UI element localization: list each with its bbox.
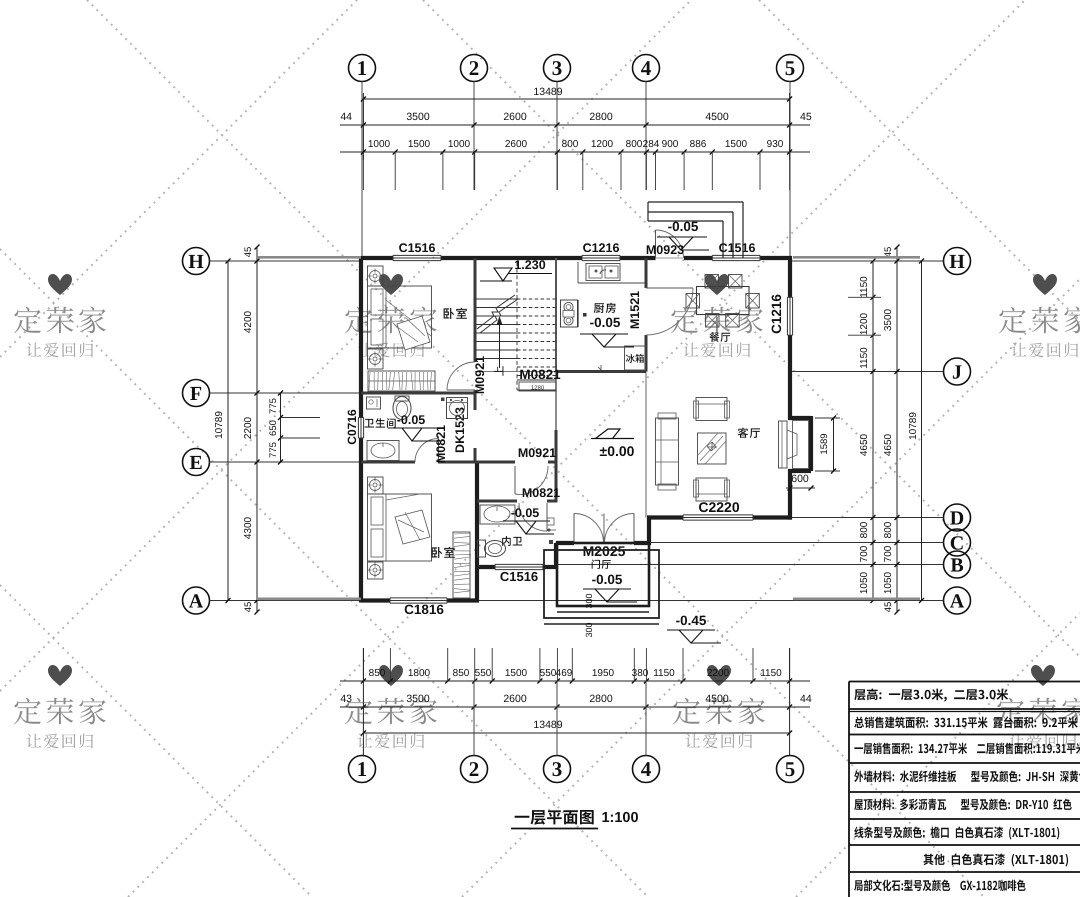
svg-text:3: 3 xyxy=(552,56,563,80)
living rug xyxy=(698,433,727,464)
svg-text:C1816: C1816 xyxy=(404,602,444,617)
left dim line 10789 xyxy=(227,261,229,601)
svg-text:M0821: M0821 xyxy=(434,425,448,463)
bathroom sink xyxy=(367,441,399,461)
svg-text:3500: 3500 xyxy=(406,111,430,123)
svg-text:2600: 2600 xyxy=(503,111,527,123)
svg-text:M0821: M0821 xyxy=(522,486,560,500)
bottom dimension line row2 xyxy=(340,706,810,708)
washing machine xyxy=(447,398,468,419)
svg-text:C1516: C1516 xyxy=(500,569,538,584)
interior wall stair-kitchen xyxy=(555,258,557,372)
window C1216 kitchen top xyxy=(582,254,620,256)
svg-text:300: 300 xyxy=(584,622,594,637)
grid bubbles right H J D C B A xyxy=(944,248,971,275)
living armchair top xyxy=(696,398,727,421)
exterior wall foyer east xyxy=(647,518,651,546)
svg-text:-0.05: -0.05 xyxy=(592,572,623,587)
entry porch steps xyxy=(557,543,649,606)
door M2025 foyer double xyxy=(573,514,575,544)
right dim line mid xyxy=(896,247,898,612)
window C1516 bedroom1 top xyxy=(393,254,441,256)
window C1816 bedroom2 bottom xyxy=(390,597,447,599)
svg-text:J: J xyxy=(952,362,962,384)
stair up arrow xyxy=(499,322,501,368)
svg-text:1500: 1500 xyxy=(505,668,528,679)
bedroom2 label xyxy=(432,547,455,558)
svg-text:2200: 2200 xyxy=(707,668,730,679)
bedroom2 bed xyxy=(368,494,432,561)
right dim line inner xyxy=(872,261,874,601)
interior wall hall east xyxy=(555,430,558,501)
corridor living boundary line xyxy=(645,372,647,518)
svg-text:M0921: M0921 xyxy=(518,446,556,460)
svg-text:10789: 10789 xyxy=(908,412,919,440)
svg-text:5: 5 xyxy=(785,56,796,80)
svg-text:800: 800 xyxy=(859,521,870,538)
grid bubbles bottom 1-5 xyxy=(349,756,376,783)
svg-text:4500: 4500 xyxy=(705,693,729,705)
svg-text:45: 45 xyxy=(883,247,894,258)
svg-text:2600: 2600 xyxy=(503,693,527,705)
svg-text:700: 700 xyxy=(859,545,870,562)
door M1521 kitchen east xyxy=(646,287,693,289)
svg-text:H: H xyxy=(188,251,204,273)
svg-text:2: 2 xyxy=(469,757,480,781)
svg-text:3500: 3500 xyxy=(883,308,894,331)
exterior wall bottom-left xyxy=(361,598,390,602)
exterior wall foyer front xyxy=(556,541,574,545)
living sofa xyxy=(656,418,679,485)
svg-text:1050: 1050 xyxy=(859,571,870,594)
exterior wall innerbath south xyxy=(477,565,495,569)
svg-text:45: 45 xyxy=(883,602,894,613)
stair landing line xyxy=(517,379,556,381)
left dim line 4200 2200 4300 xyxy=(256,247,258,612)
svg-text:-0.05: -0.05 xyxy=(511,506,540,520)
svg-text:300: 300 xyxy=(584,593,594,608)
svg-text:930: 930 xyxy=(767,139,784,150)
svg-text:2: 2 xyxy=(469,56,480,80)
svg-text:-0.05: -0.05 xyxy=(668,219,699,234)
svg-text:900: 900 xyxy=(662,139,679,150)
svg-text:800: 800 xyxy=(883,521,894,538)
bedroom1 nightstand top xyxy=(368,266,384,286)
svg-text:800: 800 xyxy=(626,139,643,150)
svg-text:13489: 13489 xyxy=(533,86,562,98)
bedroom2 nightstand bottom xyxy=(368,562,384,579)
interior wall E row xyxy=(361,461,415,464)
svg-text:F: F xyxy=(190,383,202,405)
svg-text:A: A xyxy=(950,591,965,613)
interior wall innerbath north xyxy=(477,500,517,503)
svg-text:775: 775 xyxy=(268,398,279,414)
svg-text:-0.05: -0.05 xyxy=(590,315,621,330)
bedroom1 label xyxy=(444,308,467,319)
svg-text:C1216: C1216 xyxy=(769,294,784,334)
bathroom toilet xyxy=(393,397,411,420)
svg-text:1800: 1800 xyxy=(408,668,431,679)
svg-text:775: 775 xyxy=(268,442,279,458)
exterior wall right xyxy=(788,256,792,297)
svg-text:1: 1 xyxy=(357,56,368,80)
window C1216 right wall xyxy=(786,297,788,335)
bedroom1 wardrobe xyxy=(368,371,435,391)
svg-text:2200: 2200 xyxy=(243,416,254,439)
svg-text:4200: 4200 xyxy=(243,310,254,333)
svg-text:3500: 3500 xyxy=(406,693,430,705)
svg-text:650: 650 xyxy=(268,420,279,436)
bathroom shelf xyxy=(367,397,381,409)
svg-text:M2025: M2025 xyxy=(583,543,626,559)
svg-text:M0921: M0921 xyxy=(473,356,487,394)
left dim line 775 650 775 xyxy=(280,393,282,462)
bedroom2 wardrobe xyxy=(453,532,470,598)
svg-text:A: A xyxy=(189,591,204,613)
tv niche bump walls xyxy=(788,416,811,420)
svg-text:M0923: M0923 xyxy=(646,243,684,257)
bedroom2 nightstand top xyxy=(368,477,384,494)
interior wall bathroom north F xyxy=(361,392,475,395)
svg-text:B: B xyxy=(950,555,963,577)
svg-text:2600: 2600 xyxy=(505,139,528,150)
svg-text:2800: 2800 xyxy=(589,693,613,705)
kitchen stove xyxy=(561,300,578,327)
svg-text:4: 4 xyxy=(641,757,652,781)
svg-text:600: 600 xyxy=(791,473,809,485)
svg-text:4: 4 xyxy=(641,56,652,80)
svg-text:1.230: 1.230 xyxy=(514,258,545,272)
svg-text:4650: 4650 xyxy=(859,433,870,456)
svg-text:45: 45 xyxy=(800,111,812,123)
window C2220 living bottom xyxy=(683,514,753,516)
svg-text:E: E xyxy=(189,452,202,474)
svg-text:550: 550 xyxy=(475,668,492,679)
bedroom1 bed xyxy=(368,286,432,348)
window C0716 left wall xyxy=(357,418,359,439)
staircase xyxy=(475,298,517,300)
svg-text:4300: 4300 xyxy=(243,516,254,539)
svg-text:380: 380 xyxy=(632,668,649,679)
exterior wall living south xyxy=(647,515,683,519)
top dimension line row2 xyxy=(340,124,810,126)
door M0821 innerbath xyxy=(546,503,548,531)
door M0821 bathroom xyxy=(438,439,440,463)
svg-text:886: 886 xyxy=(690,139,707,150)
svg-text:DK1523: DK1523 xyxy=(453,407,467,453)
kitchen label xyxy=(594,303,616,313)
window C1516 innerbath bottom xyxy=(495,563,543,565)
svg-text:C0716: C0716 xyxy=(345,409,359,445)
door M0923 top wall xyxy=(655,230,657,258)
svg-text:1000: 1000 xyxy=(448,139,471,150)
svg-text:44: 44 xyxy=(340,111,352,123)
svg-text:284: 284 xyxy=(643,139,660,150)
svg-text:1150: 1150 xyxy=(859,276,870,298)
innerbath toilet xyxy=(478,540,486,557)
fridge xyxy=(625,346,646,370)
kitchen sink xyxy=(586,264,620,281)
grid vertical lines top xyxy=(361,82,363,259)
svg-text:C1216: C1216 xyxy=(583,241,620,255)
spec table bottom right xyxy=(849,681,1080,683)
dim 1589 niche xyxy=(815,417,840,419)
svg-text:43: 43 xyxy=(340,693,352,705)
svg-text:850: 850 xyxy=(453,668,470,679)
innerbath accessories xyxy=(547,518,554,525)
rear porch steps xyxy=(648,201,743,203)
svg-text:13489: 13489 xyxy=(533,719,562,731)
svg-text:4650: 4650 xyxy=(883,433,894,456)
interior wall kitchen east xyxy=(645,258,648,288)
svg-text:45: 45 xyxy=(243,602,254,613)
svg-text:1280: 1280 xyxy=(531,385,545,392)
innerbath label xyxy=(502,536,522,546)
svg-text:800: 800 xyxy=(562,139,579,150)
top dimension line row3 xyxy=(340,151,810,153)
dining label xyxy=(710,332,731,342)
door M0921 bedroom1 xyxy=(447,389,475,391)
svg-text:1000: 1000 xyxy=(368,139,391,150)
svg-text:2800: 2800 xyxy=(589,111,613,123)
svg-text:1050: 1050 xyxy=(883,571,894,594)
innerbath sink xyxy=(480,505,515,524)
tv cabinet xyxy=(779,421,788,468)
svg-text:1150: 1150 xyxy=(760,668,782,679)
svg-text:C1516: C1516 xyxy=(399,241,436,255)
interior wall bedroom1 east xyxy=(474,258,477,362)
top dimension line 13489 xyxy=(363,98,789,100)
bathroom label xyxy=(365,418,396,428)
svg-text:D: D xyxy=(950,508,964,530)
exterior wall left xyxy=(359,256,363,418)
level -0.05 rear porch xyxy=(657,236,707,238)
svg-text:±0.00: ±0.00 xyxy=(600,443,635,459)
svg-text:1150: 1150 xyxy=(859,347,870,369)
door M0921 vestibule xyxy=(514,466,516,494)
stair break line xyxy=(477,295,515,329)
exterior wall bedroom2 east xyxy=(475,462,479,603)
living label xyxy=(738,428,760,438)
svg-text:1200: 1200 xyxy=(591,139,614,150)
svg-text:1950: 1950 xyxy=(592,668,615,679)
svg-text:C1516: C1516 xyxy=(719,241,756,255)
svg-text:5: 5 xyxy=(785,757,796,781)
svg-text:1500: 1500 xyxy=(408,139,431,150)
svg-text:-0.45: -0.45 xyxy=(676,613,707,628)
exterior wall top xyxy=(361,256,393,260)
svg-text:4500: 4500 xyxy=(705,111,729,123)
right dim line 10789 xyxy=(921,261,923,601)
hall stair railing xyxy=(555,372,557,431)
svg-text:44: 44 xyxy=(800,693,812,705)
svg-text:550: 550 xyxy=(540,668,557,679)
svg-text:-0.05: -0.05 xyxy=(397,413,426,427)
svg-text:45: 45 xyxy=(243,247,254,258)
foyer label xyxy=(592,560,611,569)
svg-text:469: 469 xyxy=(556,668,573,679)
svg-text:1589: 1589 xyxy=(819,433,830,454)
bedroom1 nightstand bottom xyxy=(368,349,384,369)
living armchair bottom xyxy=(696,478,727,501)
bottom dimension line row1 xyxy=(340,680,810,682)
window C1516 dining top xyxy=(712,254,760,256)
bottom dimension line 13489 xyxy=(363,732,789,734)
level pm0.00 corridor xyxy=(591,438,634,440)
svg-text:1:100: 1:100 xyxy=(601,810,638,826)
exterior wall foyer west xyxy=(554,543,558,569)
interior wall kitchen south J xyxy=(556,370,646,373)
dining table xyxy=(697,287,750,315)
svg-text:1500: 1500 xyxy=(725,139,748,150)
roof overhang lines xyxy=(257,256,361,259)
svg-text:850: 850 xyxy=(369,668,386,679)
svg-text:10789: 10789 xyxy=(214,411,225,439)
svg-text:1200: 1200 xyxy=(859,312,870,335)
title first floor plan xyxy=(515,810,594,825)
watermark dotted diagonal lines xyxy=(759,0,1080,321)
svg-text:1: 1 xyxy=(357,757,368,781)
kitchen counter xyxy=(578,282,646,284)
svg-text:M1521: M1521 xyxy=(628,291,642,329)
grid bubbles left H F E A xyxy=(183,248,210,275)
svg-text:1150: 1150 xyxy=(653,668,675,679)
svg-text:H: H xyxy=(949,251,965,273)
svg-text:700: 700 xyxy=(883,545,894,562)
grid bubbles top 1-5 xyxy=(349,55,376,82)
svg-text:3: 3 xyxy=(552,757,563,781)
